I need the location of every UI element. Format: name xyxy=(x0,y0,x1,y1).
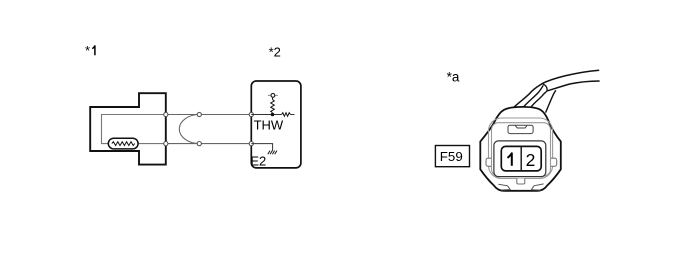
ECM terminal node E2 xyxy=(249,142,253,146)
thermistor resistor zigzag xyxy=(112,142,135,146)
connector inner shell xyxy=(489,118,553,179)
internal wire stub xyxy=(290,114,294,116)
wire THW (sensor to ECM) xyxy=(166,114,251,116)
bottom tab xyxy=(517,179,525,185)
pin housing frame xyxy=(494,141,546,177)
svg-text:THW: THW xyxy=(254,118,284,133)
power terminal wing right xyxy=(276,94,278,96)
internal power terminal circle xyxy=(271,94,275,98)
harness wire crotch arc xyxy=(542,84,547,91)
ground symbol xyxy=(268,151,277,155)
ECM terminal node THW xyxy=(249,112,253,116)
svg-text:*2: *2 xyxy=(269,45,281,60)
latch slot xyxy=(508,125,533,133)
sensor pin 2 xyxy=(164,142,168,146)
loop node top xyxy=(197,112,201,116)
svg-text:F59: F59 xyxy=(440,149,463,164)
power terminal wing left xyxy=(268,94,270,96)
coolant temperature sensor body *1 xyxy=(90,93,166,164)
svg-text:*a: *a xyxy=(447,70,460,85)
harness connector loop arc xyxy=(179,115,199,144)
connector face plate xyxy=(492,123,551,176)
connector harness lower wire outer edge xyxy=(546,90,556,112)
ECM box *2 xyxy=(251,81,301,168)
loop node bottom xyxy=(197,142,201,146)
wire E2 (sensor to ECM) xyxy=(166,143,251,145)
connector harness wire bottom edge xyxy=(547,81,600,91)
connector right ear xyxy=(549,158,556,166)
junction dot xyxy=(271,113,275,117)
connector F59 outer housing xyxy=(480,107,561,191)
pin number 1 xyxy=(508,153,512,166)
THW internal wire xyxy=(251,114,281,116)
connector harness wire middle edge xyxy=(523,85,543,107)
pin divider xyxy=(520,146,522,171)
internal series resistor (horizontal zigzag) xyxy=(282,113,291,117)
connector left ear xyxy=(486,158,493,166)
svg-text:*: * xyxy=(85,43,90,58)
sensor pin 1 xyxy=(164,112,168,116)
sensor internal wire loop xyxy=(102,115,166,144)
thermistor element capsule xyxy=(108,138,138,149)
E2 internal wire xyxy=(251,144,272,151)
bottom right wing xyxy=(531,184,543,190)
svg-text:E2: E2 xyxy=(250,154,266,169)
internal power terminal stem xyxy=(272,98,274,100)
latch tab notch xyxy=(515,125,527,128)
svg-text:2: 2 xyxy=(526,150,536,170)
connector harness wire inner edge xyxy=(531,91,547,107)
pin block xyxy=(501,146,541,171)
bottom left wing xyxy=(498,184,510,190)
F59 label box xyxy=(435,146,469,167)
pull-up resistor (vertical zigzag) xyxy=(271,100,275,113)
connector harness wire top edge xyxy=(514,70,599,107)
